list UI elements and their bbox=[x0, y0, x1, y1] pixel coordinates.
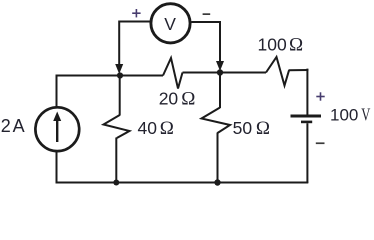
wire: top right to battery bbox=[289, 69, 309, 115]
battery 100V long plate (+) bbox=[291, 115, 322, 118]
label 100 ohm bbox=[258, 35, 304, 56]
label 100 V bbox=[330, 105, 371, 125]
battery polarity - bbox=[316, 142, 325, 144]
wire: left rail below current source bbox=[56, 151, 58, 184]
resistor 50 ohm zigzag bbox=[202, 108, 231, 134]
wire: 50 ohm branch bottom bbox=[217, 133, 219, 183]
current source 2A circle bbox=[35, 107, 79, 151]
svg-text:50Ω: 50Ω bbox=[233, 118, 270, 139]
wire: bottom bus bbox=[56, 182, 309, 184]
battery 100V short plate (-) bbox=[301, 121, 312, 124]
wire: voltmeter right lead bbox=[191, 22, 220, 62]
junction bottom right dot bbox=[214, 179, 220, 185]
svg-text:20Ω: 20Ω bbox=[159, 89, 196, 110]
wire: right rail below battery bbox=[306, 123, 308, 183]
wire: voltmeter left lead bbox=[119, 22, 150, 65]
voltmeter polarity - bbox=[203, 13, 211, 15]
wire: 40 ohm branch top bbox=[119, 75, 121, 116]
junction bottom left dot bbox=[113, 180, 119, 186]
svg-text:100Ω: 100Ω bbox=[258, 35, 304, 56]
current source arrow (up) bbox=[53, 112, 61, 143]
svg-text:2A: 2A bbox=[1, 116, 25, 136]
label 20 ohm bbox=[159, 89, 196, 110]
probe arrow at node b bbox=[216, 61, 224, 71]
wire: top bus left segment (node a) bbox=[57, 76, 164, 108]
resistor 20 ohm zigzag bbox=[163, 58, 183, 89]
battery polarity + bbox=[316, 92, 324, 100]
probe arrow at node a bbox=[115, 64, 123, 74]
voltmeter polarity + bbox=[132, 9, 140, 17]
svg-text:V: V bbox=[164, 14, 176, 34]
resistor 100 ohm zigzag bbox=[266, 57, 289, 86]
junction node b dot bbox=[217, 69, 223, 75]
voltmeter V circle bbox=[151, 4, 190, 43]
label 2 A bbox=[1, 116, 25, 136]
label 40 ohm bbox=[138, 118, 174, 139]
svg-text:V: V bbox=[361, 105, 371, 125]
svg-text:100: 100 bbox=[330, 105, 358, 124]
svg-text:40Ω: 40Ω bbox=[138, 118, 174, 139]
wire: top bus right segment (node b) bbox=[183, 72, 267, 74]
wire: 50 ohm branch top bbox=[219, 72, 221, 109]
junction node a dot bbox=[117, 72, 123, 78]
label 50 ohm bbox=[233, 118, 270, 139]
resistor 40 ohm zigzag bbox=[104, 115, 130, 138]
wire: 40 ohm branch bottom bbox=[115, 138, 117, 183]
voltmeter V letter bbox=[164, 14, 176, 34]
